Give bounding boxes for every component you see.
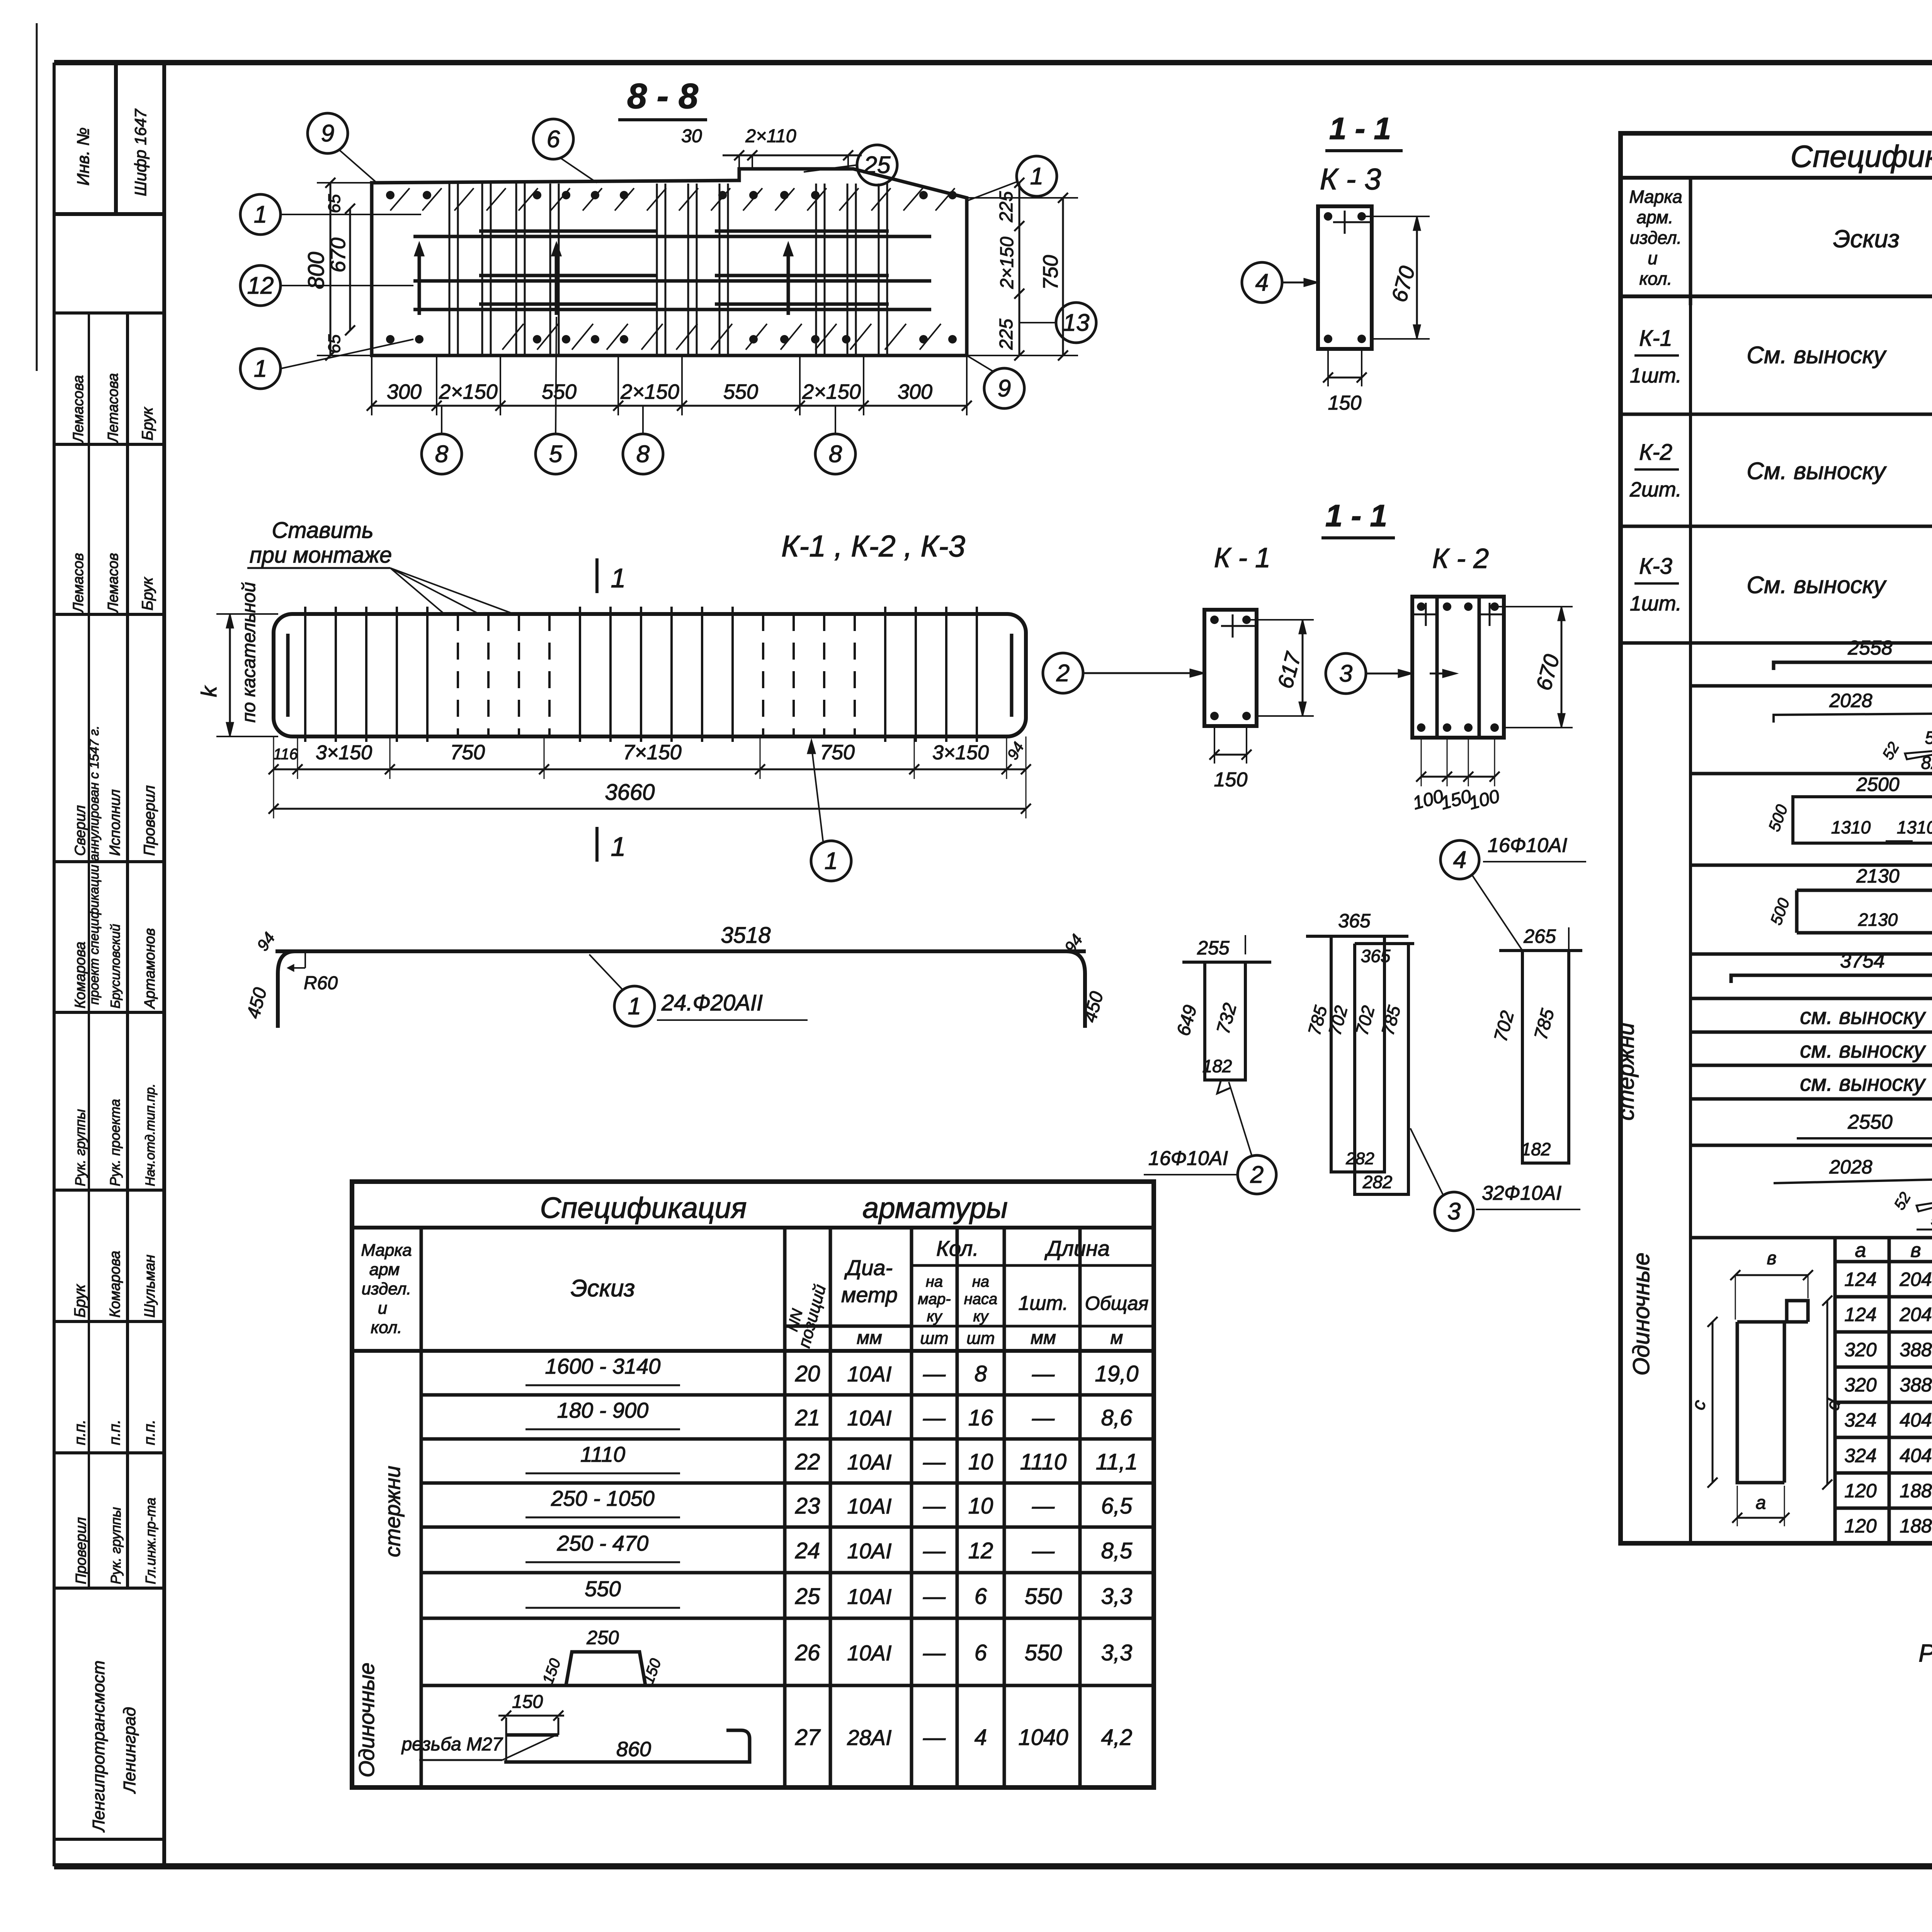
- svg-text:—: —: [923, 1640, 946, 1665]
- K-3 section rectangle: [1318, 206, 1372, 349]
- dim 8-8 right 750: [1062, 198, 1064, 355]
- svg-text:150: 150: [1328, 392, 1362, 414]
- svg-text:2×110: 2×110: [745, 126, 796, 146]
- svg-text:1шт.: 1шт.: [1630, 592, 1682, 615]
- svg-text:8: 8: [435, 441, 449, 468]
- balloon 1 cage: [811, 841, 851, 881]
- bar sketch A 255x649: [1205, 962, 1245, 1080]
- balloon 2 cage points K-1: [1043, 653, 1083, 693]
- svg-text:21: 21: [795, 1405, 820, 1430]
- beam 8-8 stirrups: [449, 184, 451, 354]
- svg-text:Шульман: Шульман: [142, 1255, 158, 1318]
- svg-text:2×150: 2×150: [439, 380, 498, 403]
- balloon 25 top right: [857, 145, 897, 185]
- svg-text:13: 13: [1063, 310, 1090, 336]
- svg-text:300: 300: [898, 380, 932, 403]
- hook bar sketch rows 12-19: [1737, 1301, 1808, 1483]
- svg-text:388: 388: [1900, 1374, 1932, 1396]
- balloon 8 bottom a: [422, 434, 462, 474]
- dim 8-8 top 30 2x110: [723, 155, 862, 156]
- svg-text:1040: 1040: [1018, 1725, 1068, 1750]
- svg-text:300: 300: [387, 380, 422, 403]
- svg-text:2×150: 2×150: [997, 236, 1017, 289]
- svg-text:320: 320: [1844, 1374, 1877, 1396]
- svg-text:шт: шт: [920, 1329, 948, 1348]
- svg-text:8: 8: [975, 1361, 987, 1386]
- svg-text:3: 3: [1447, 1198, 1461, 1225]
- svg-text:550: 550: [1025, 1584, 1062, 1609]
- section mark 1 lower: [595, 827, 599, 862]
- svg-text:8 - 8: 8 - 8: [627, 77, 699, 116]
- svg-text:Брусиловский: Брусиловский: [108, 924, 123, 1009]
- cage total dim 3660: [274, 808, 1026, 810]
- svg-text:180 - 900: 180 - 900: [557, 1398, 649, 1422]
- svg-text:3518: 3518: [721, 923, 770, 948]
- svg-text:6,5: 6,5: [1101, 1493, 1133, 1519]
- svg-text:2558: 2558: [1847, 637, 1893, 659]
- svg-text:2130: 2130: [1856, 865, 1899, 887]
- cage left dim arrow: [229, 614, 231, 736]
- svg-text:издел.: издел.: [362, 1279, 412, 1298]
- svg-text:Лемасов: Лемасов: [70, 553, 87, 614]
- svg-text:550: 550: [723, 380, 758, 403]
- stamp box inv/shifr: [54, 212, 164, 216]
- svg-text:5: 5: [549, 441, 563, 468]
- svg-text:6: 6: [975, 1640, 987, 1665]
- svg-text:Лемасова: Лемасова: [70, 375, 87, 444]
- svg-text:27: 27: [795, 1725, 821, 1750]
- balloon 1 left upper: [240, 194, 281, 235]
- svg-text:10АI: 10АI: [847, 1362, 891, 1386]
- svg-text:Спецификация: Спецификация: [1790, 139, 1932, 173]
- dim K-2 670: [1561, 607, 1563, 728]
- cage end hooks: [286, 634, 290, 717]
- svg-text:—: —: [1032, 1405, 1055, 1430]
- svg-text:Нач.отд.тип.пр.: Нач.отд.тип.пр.: [143, 1083, 158, 1186]
- svg-text:10АI: 10АI: [847, 1584, 891, 1609]
- svg-text:Рук. группы: Рук. группы: [72, 1109, 88, 1186]
- right spec column segments: [1689, 178, 1692, 1543]
- sheet border frame left: [53, 63, 56, 1866]
- svg-text:см. выноску: см. выноску: [1800, 1037, 1926, 1063]
- svg-text:ку: ку: [927, 1308, 943, 1325]
- svg-text:Рук. группы: Рук. группы: [108, 1507, 124, 1584]
- svg-text:R60: R60: [304, 973, 338, 993]
- svg-text:8,6: 8,6: [1101, 1405, 1133, 1430]
- svg-text:188: 188: [1900, 1515, 1932, 1537]
- svg-text:Работать совместно с лист: Работать совместно с листом 49: [1918, 1639, 1932, 1667]
- svg-text:Общая: Общая: [1085, 1293, 1149, 1314]
- svg-text:4: 4: [1453, 847, 1466, 873]
- cage outline: [274, 614, 1026, 736]
- svg-text:м: м: [1111, 1328, 1123, 1348]
- svg-text:арм: арм: [369, 1260, 400, 1279]
- svg-text:2×150: 2×150: [620, 380, 679, 403]
- svg-text:1310: 1310: [1897, 817, 1932, 837]
- svg-text:2: 2: [1250, 1162, 1264, 1188]
- svg-text:1110: 1110: [1020, 1449, 1066, 1475]
- stamp signature band 6: [54, 1320, 164, 1323]
- svg-text:—: —: [923, 1584, 946, 1609]
- svg-text:10АI: 10АI: [847, 1406, 891, 1430]
- svg-text:Эскиз: Эскиз: [1833, 225, 1900, 253]
- svg-text:К - 2: К - 2: [1432, 543, 1489, 574]
- stamp signature band 3: [54, 860, 164, 863]
- svg-text:кол.: кол.: [1639, 269, 1672, 289]
- dim K-3 670: [1416, 216, 1418, 339]
- svg-text:1: 1: [611, 832, 626, 862]
- svg-text:Ставить: Ставить: [272, 518, 373, 543]
- svg-text:225: 225: [996, 191, 1017, 223]
- svg-text:Сверил: Сверил: [72, 805, 88, 856]
- balloon 9 top left: [308, 113, 348, 153]
- svg-text:250 - 470: 250 - 470: [557, 1531, 649, 1555]
- svg-text:Ленинград: Ленинград: [120, 1707, 139, 1794]
- svg-text:12: 12: [968, 1538, 993, 1563]
- svg-text:по касательной: по касательной: [239, 582, 259, 723]
- svg-text:25: 25: [864, 152, 891, 179]
- svg-text:550: 550: [542, 380, 577, 403]
- svg-text:26: 26: [795, 1640, 820, 1665]
- svg-text:К-1 , К-2 , К-3: К-1 , К-2 , К-3: [781, 529, 965, 563]
- svg-text:мм: мм: [1031, 1328, 1056, 1348]
- svg-text:2130: 2130: [1858, 910, 1898, 930]
- svg-text:182: 182: [1521, 1139, 1551, 1159]
- svg-text:Диа-: Диа-: [844, 1255, 893, 1280]
- svg-text:1 - 1: 1 - 1: [1329, 111, 1391, 146]
- svg-text:3754: 3754: [1840, 950, 1885, 972]
- svg-text:120: 120: [1844, 1515, 1877, 1537]
- right spec header grid: [1689, 178, 1692, 305]
- svg-text:20: 20: [795, 1361, 820, 1386]
- svg-text:Брук: Брук: [71, 1284, 88, 1318]
- svg-text:а: а: [1855, 1239, 1866, 1262]
- svg-text:К - 3: К - 3: [1320, 162, 1381, 196]
- svg-text:65: 65: [325, 334, 344, 353]
- svg-text:820: 820: [1921, 753, 1932, 773]
- svg-text:23: 23: [795, 1493, 820, 1519]
- section mark 1 upper: [595, 558, 599, 593]
- svg-text:188: 188: [1900, 1480, 1932, 1502]
- svg-text:204: 204: [1899, 1269, 1932, 1290]
- svg-text:3,3: 3,3: [1101, 1640, 1133, 1665]
- balloon 3 K-2: [1326, 653, 1366, 694]
- svg-text:Ленгипротрансмост: Ленгипротрансмост: [89, 1660, 108, 1833]
- svg-text:наса: наса: [964, 1291, 998, 1308]
- dim K-1 617: [1302, 620, 1304, 716]
- svg-text:в: в: [1910, 1239, 1921, 1262]
- svg-text:8: 8: [829, 441, 842, 468]
- svg-text:издел.: издел.: [1630, 228, 1682, 248]
- left spec table header grid: [420, 1228, 423, 1351]
- svg-text:16Ф10АI: 16Ф10АI: [1148, 1147, 1228, 1170]
- svg-text:—: —: [923, 1725, 946, 1750]
- svg-text:Летасова: Летасова: [105, 373, 121, 444]
- dim 8-8 left 800: [330, 183, 332, 355]
- dim 8-8 bottom line: [372, 405, 967, 407]
- svg-text:Проверил: Проверил: [141, 785, 158, 856]
- dim K-3 150: [1328, 377, 1362, 379]
- svg-text:750: 750: [450, 741, 485, 764]
- svg-text:11,1: 11,1: [1096, 1449, 1138, 1475]
- svg-text:10АI: 10АI: [847, 1450, 891, 1474]
- svg-text:Одиночные: Одиночные: [354, 1663, 379, 1777]
- svg-text:шт: шт: [966, 1329, 995, 1348]
- svg-text:282: 282: [1345, 1149, 1374, 1168]
- svg-text:25: 25: [795, 1584, 820, 1609]
- balloon 1 right: [1017, 156, 1057, 196]
- svg-text:750: 750: [820, 741, 855, 764]
- svg-text:и: и: [378, 1299, 387, 1318]
- svg-text:К-2: К-2: [1639, 440, 1672, 465]
- balloon 8 bottom c: [815, 434, 855, 474]
- svg-text:324: 324: [1844, 1409, 1876, 1431]
- svg-text:10: 10: [968, 1493, 993, 1519]
- svg-text:150: 150: [512, 1692, 543, 1712]
- svg-text:Артамонов: Артамонов: [142, 928, 158, 1009]
- svg-text:404: 404: [1900, 1445, 1932, 1466]
- svg-text:1: 1: [611, 563, 626, 593]
- svg-text:Одиночные: Одиночные: [1628, 1253, 1654, 1376]
- label 16f10AI balloon 4: [1440, 840, 1479, 879]
- svg-text:п.п.: п.п.: [71, 1420, 88, 1445]
- svg-text:арматуры: арматуры: [862, 1192, 1008, 1225]
- balloon 4 K-3: [1242, 262, 1282, 303]
- cage vertical wires: [304, 607, 306, 742]
- balloon 12 left: [240, 265, 281, 306]
- beam 8-8 bottom hatching: [502, 324, 524, 350]
- svg-text:Лемасов: Лемасов: [105, 553, 121, 614]
- svg-text:388: 388: [1900, 1339, 1932, 1361]
- svg-text:стержни: стержни: [1613, 1022, 1639, 1121]
- svg-text:550: 550: [1025, 1640, 1062, 1665]
- svg-text:550: 550: [585, 1577, 621, 1601]
- svg-text:арм.: арм.: [1637, 207, 1673, 227]
- svg-text:k: k: [197, 685, 221, 697]
- svg-text:7×150: 7×150: [623, 741, 682, 764]
- svg-text:Рук. проекта: Рук. проекта: [107, 1099, 123, 1186]
- svg-text:3660: 3660: [605, 780, 655, 805]
- balloon 13 right: [1056, 303, 1096, 343]
- svg-text:4: 4: [1255, 269, 1269, 296]
- svg-text:800: 800: [304, 252, 329, 289]
- svg-text:28АI: 28АI: [847, 1725, 891, 1750]
- svg-text:320: 320: [1844, 1339, 1877, 1361]
- svg-text:на: на: [972, 1273, 989, 1290]
- svg-text:и: и: [1648, 248, 1658, 268]
- beam 8-8 outline: [372, 169, 967, 355]
- dim K-2 100 150 100: [1421, 776, 1495, 778]
- svg-text:Комарова: Комарова: [107, 1251, 123, 1318]
- beam 8-8 top rebar dots: [386, 191, 395, 199]
- beam 8-8 bottom rebar dots: [386, 335, 395, 344]
- beam 8-8 longitudinal bars: [413, 235, 931, 238]
- beam 8-8 top hatching: [390, 188, 410, 211]
- svg-text:Шифр 1647: Шифр 1647: [131, 109, 150, 196]
- svg-text:метр: метр: [841, 1282, 898, 1307]
- svg-text:8: 8: [636, 441, 650, 468]
- svg-text:2: 2: [1056, 660, 1070, 687]
- svg-text:Инв. №: Инв. №: [74, 128, 93, 186]
- svg-text:См. выноску: См. выноску: [1747, 458, 1887, 485]
- svg-text:523: 523: [1925, 728, 1932, 748]
- svg-text:—: —: [1032, 1538, 1055, 1563]
- svg-text:Длина: Длина: [1044, 1236, 1110, 1260]
- svg-text:282: 282: [1362, 1172, 1393, 1192]
- svg-text:К - 1: К - 1: [1214, 543, 1270, 573]
- K-1 section rectangle: [1204, 610, 1257, 726]
- svg-text:1шт.: 1шт.: [1630, 364, 1682, 387]
- bar sketch C 265x785: [1522, 951, 1569, 1163]
- stamp signature band 7 p.p.: [54, 1451, 164, 1454]
- svg-text:250 - 1050: 250 - 1050: [551, 1486, 655, 1510]
- svg-text:1600 - 3140: 1600 - 3140: [545, 1354, 661, 1378]
- svg-text:3,3: 3,3: [1101, 1584, 1133, 1609]
- svg-text:Эскиз: Эскиз: [571, 1275, 635, 1302]
- stamp signature band 8 roles: [54, 1587, 164, 1590]
- balloon 9 bottom right: [984, 368, 1024, 408]
- svg-text:1310: 1310: [1831, 817, 1871, 837]
- svg-text:204: 204: [1899, 1304, 1932, 1325]
- cage bottom dim line: [274, 769, 1026, 770]
- svg-text:ку: ку: [973, 1308, 990, 1325]
- dim K-1 150: [1214, 754, 1247, 756]
- svg-text:24: 24: [795, 1538, 820, 1563]
- svg-text:Марка: Марка: [361, 1241, 412, 1260]
- svg-text:мм: мм: [857, 1328, 882, 1348]
- svg-text:—: —: [923, 1449, 946, 1475]
- svg-text:К-3: К-3: [1639, 554, 1672, 579]
- left spec rows grid: [421, 1393, 1154, 1397]
- svg-text:Комарова: Комарова: [72, 942, 88, 1009]
- label 32f10AI balloon 3: [1435, 1192, 1473, 1231]
- svg-text:10: 10: [968, 1449, 993, 1475]
- svg-text:324: 324: [1844, 1445, 1876, 1466]
- svg-text:см. выноску: см. выноску: [1800, 1004, 1926, 1029]
- svg-text:404: 404: [1900, 1409, 1932, 1431]
- svg-text:см. выноску: см. выноску: [1800, 1071, 1926, 1096]
- svg-text:265: 265: [1523, 925, 1556, 947]
- svg-text:182: 182: [1202, 1056, 1232, 1076]
- svg-text:1110: 1110: [580, 1442, 625, 1466]
- svg-text:3×150: 3×150: [316, 742, 372, 764]
- svg-text:10АI: 10АI: [847, 1539, 891, 1563]
- svg-text:мар-: мар-: [918, 1291, 951, 1308]
- svg-text:Марка: Марка: [1629, 187, 1682, 207]
- svg-text:12: 12: [247, 272, 274, 299]
- balloon 5 bottom: [536, 434, 576, 474]
- scan artifact line left: [36, 23, 38, 371]
- svg-text:2550: 2550: [1847, 1111, 1893, 1133]
- balloon 1 bent bar: [614, 986, 655, 1026]
- svg-text:Брук: Брук: [139, 406, 156, 440]
- K-2 section rectangle: [1412, 597, 1504, 738]
- dim 8-8 right 225 2x150 225: [1019, 183, 1020, 355]
- svg-text:2шт.: 2шт.: [1629, 478, 1682, 501]
- svg-text:Проверил: Проверил: [73, 1517, 89, 1584]
- svg-text:9: 9: [321, 120, 334, 147]
- stamp signature band 5 signatures: [54, 1189, 164, 1192]
- svg-text:2028: 2028: [1829, 1156, 1872, 1178]
- svg-text:4,2: 4,2: [1101, 1725, 1133, 1750]
- sheet border frame bottom: [54, 1863, 1932, 1869]
- svg-text:124: 124: [1844, 1269, 1876, 1290]
- svg-text:1: 1: [1030, 163, 1043, 190]
- svg-text:10АI: 10АI: [847, 1641, 891, 1665]
- svg-text:2500: 2500: [1856, 774, 1899, 795]
- sheet border frame top: [54, 60, 1932, 65]
- svg-text:10АI: 10АI: [847, 1494, 891, 1518]
- svg-text:а: а: [1756, 1493, 1766, 1513]
- balloon 6 top: [533, 119, 573, 159]
- svg-text:—: —: [923, 1493, 946, 1519]
- left spec table outer: [352, 1182, 1154, 1787]
- svg-text:16Ф10АI: 16Ф10АI: [1488, 834, 1567, 857]
- svg-text:—: —: [923, 1405, 946, 1430]
- svg-text:16: 16: [968, 1405, 993, 1430]
- abcd subtable: [1833, 1238, 1837, 1543]
- stamp signature band 4: [54, 1011, 164, 1014]
- svg-text:116: 116: [273, 746, 298, 763]
- svg-text:п.п.: п.п.: [141, 1420, 158, 1445]
- svg-text:750: 750: [1039, 255, 1062, 290]
- svg-text:Брук: Брук: [139, 577, 156, 611]
- svg-text:8,5: 8,5: [1101, 1538, 1133, 1563]
- balloon 8 bottom b: [623, 434, 663, 474]
- svg-text:кол.: кол.: [371, 1318, 402, 1337]
- svg-text:—: —: [923, 1361, 946, 1386]
- svg-text:124: 124: [1844, 1304, 1876, 1325]
- svg-text:в: в: [1767, 1248, 1776, 1269]
- svg-text:225: 225: [996, 319, 1017, 350]
- dim 8-8 left 670: [349, 209, 351, 330]
- bent bar pos 1: [276, 949, 1086, 953]
- svg-text:при монтаже: при монтаже: [250, 543, 392, 568]
- svg-text:19,0: 19,0: [1095, 1361, 1139, 1386]
- svg-text:2028: 2028: [1829, 690, 1872, 711]
- svg-text:1: 1: [254, 201, 267, 228]
- svg-text:1: 1: [825, 848, 838, 874]
- stamp signature band 1: [54, 311, 164, 315]
- svg-text:Гл.инж.пр-та: Гл.инж.пр-та: [143, 1498, 158, 1584]
- svg-text:250: 250: [586, 1627, 619, 1648]
- right spec table outer: [1621, 133, 1932, 1543]
- svg-text:См. выноску: См. выноску: [1747, 572, 1887, 599]
- svg-text:365: 365: [1361, 946, 1391, 966]
- svg-text:6: 6: [547, 126, 560, 153]
- svg-text:22: 22: [795, 1449, 820, 1475]
- svg-text:—: —: [1032, 1493, 1055, 1519]
- svg-text:стержни: стержни: [380, 1466, 405, 1557]
- svg-text:п.п.: п.п.: [106, 1420, 123, 1445]
- svg-text:520: 520: [1931, 1209, 1932, 1230]
- svg-text:670: 670: [327, 238, 350, 272]
- svg-text:860: 860: [616, 1738, 651, 1761]
- svg-text:120: 120: [1844, 1480, 1877, 1502]
- svg-text:4: 4: [975, 1725, 987, 1750]
- svg-text:3×150: 3×150: [932, 742, 989, 764]
- svg-text:1шт.: 1шт.: [1018, 1292, 1068, 1315]
- svg-text:150: 150: [1214, 769, 1248, 791]
- svg-text:резьба М27: резьба М27: [401, 1734, 503, 1755]
- svg-text:9: 9: [998, 375, 1011, 402]
- svg-text:1: 1: [628, 993, 641, 1020]
- stamp org name cell: [54, 1838, 164, 1841]
- svg-text:—: —: [1032, 1361, 1055, 1386]
- svg-text:Спецификация: Спецификация: [540, 1192, 747, 1225]
- svg-text:30: 30: [681, 126, 702, 146]
- svg-text:Кол.: Кол.: [936, 1236, 979, 1260]
